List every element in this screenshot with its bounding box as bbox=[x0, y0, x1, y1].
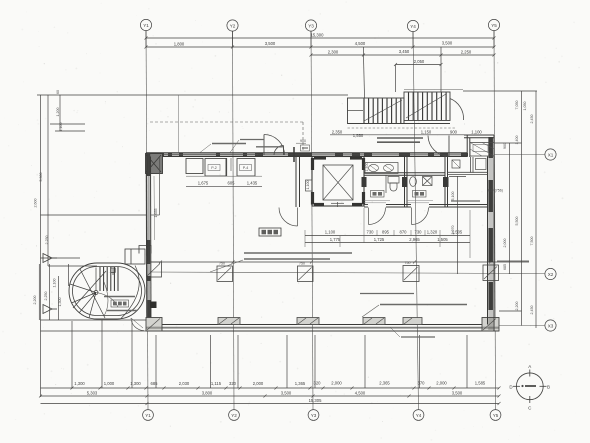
svg-text:60: 60 bbox=[56, 90, 60, 94]
bottom pilaster 4 bbox=[403, 318, 422, 325]
top wall hatch band bbox=[146, 154, 467, 156]
right wall hatch band bbox=[488, 137, 493, 330]
grid bubble X2 bbox=[545, 268, 556, 279]
svg-text:B1F(756): B1F(756) bbox=[488, 189, 503, 193]
lavatory top wall (under main wall) bbox=[364, 172, 445, 174]
grid bubble Y5 top bbox=[488, 19, 499, 30]
interior X2 bay dimension line bbox=[151, 261, 529, 263]
svg-text:750: 750 bbox=[405, 261, 411, 265]
spiral stair dim verticals bbox=[38, 264, 40, 320]
svg-text:4,500: 4,500 bbox=[355, 391, 366, 396]
window callout note bbox=[240, 139, 264, 141]
svg-text:4,500: 4,500 bbox=[355, 41, 366, 46]
svg-text:1,300: 1,300 bbox=[74, 381, 85, 386]
right tick y261 bbox=[497, 260, 529, 262]
entrance double door arc left bbox=[264, 135, 285, 156]
small AD box near Y3 bbox=[301, 145, 310, 151]
spiral inner arc detail bbox=[96, 293, 118, 308]
top wall thick segments bbox=[0, 0, 1, 1]
bottom wall outer bbox=[146, 330, 499, 332]
svg-text:2,450: 2,450 bbox=[530, 306, 534, 315]
svg-text:1,400: 1,400 bbox=[515, 136, 519, 145]
svg-text:3,800: 3,800 bbox=[202, 391, 213, 396]
spiral stair inner wall bbox=[73, 267, 142, 316]
window unit box 2 with label P-2 bbox=[205, 159, 226, 177]
bottom-left corner column bbox=[146, 318, 162, 332]
svg-text:2,965: 2,965 bbox=[409, 237, 420, 242]
row1 tick slashes bbox=[71, 387, 501, 390]
svg-text:370: 370 bbox=[418, 381, 426, 386]
elevator shaft wall dark chunks bbox=[313, 158, 364, 205]
svg-text:320: 320 bbox=[314, 381, 322, 386]
svg-text:2,250: 2,250 bbox=[44, 292, 48, 301]
grid line Y3 bbox=[311, 31, 313, 410]
bottom dimension row1 bbox=[41, 387, 500, 389]
svg-text:2,000: 2,000 bbox=[503, 239, 507, 248]
svg-text:685: 685 bbox=[503, 264, 507, 270]
svg-text:2,000: 2,000 bbox=[253, 381, 264, 386]
inubashiri leader bbox=[362, 305, 379, 317]
spiral stair outer wall bbox=[69, 263, 145, 319]
spiral hub bbox=[94, 291, 98, 295]
entrance jamb bbox=[293, 147, 295, 162]
left tick y215 bbox=[41, 214, 147, 216]
left wall inner bbox=[150, 157, 153, 332]
window dim line bbox=[186, 185, 262, 187]
porch entry door arc bbox=[428, 136, 449, 157]
svg-text:X3: X3 bbox=[548, 324, 554, 329]
stair door arc right bbox=[450, 99, 464, 121]
black column block at stair landing bbox=[150, 302, 157, 309]
dimension line tier4 2050 bbox=[396, 64, 442, 66]
svg-text:2,350: 2,350 bbox=[332, 129, 343, 134]
exterior wall note leader bbox=[200, 144, 211, 153]
top wall outer line bbox=[146, 152, 467, 154]
sugata-zu note bbox=[451, 200, 480, 202]
svg-text:5,500: 5,500 bbox=[515, 217, 519, 226]
extension line from tier3 to stair bbox=[364, 55, 365, 98]
lavatory partition wall 1 bbox=[404, 157, 406, 208]
svg-text:2,250: 2,250 bbox=[45, 236, 49, 245]
stair right flight treads bbox=[409, 93, 447, 121]
SPIRAL bbox=[69, 246, 151, 331]
svg-text:1,505: 1,505 bbox=[437, 237, 448, 242]
urinal bbox=[410, 177, 417, 187]
landing step notch bbox=[139, 246, 151, 254]
elevator door bbox=[331, 202, 344, 207]
extension lines below spiral stair bbox=[71, 321, 73, 388]
second floor note bar bbox=[360, 293, 414, 295]
window unit box 1 bbox=[186, 159, 203, 174]
svg-text:1,400: 1,400 bbox=[365, 163, 369, 172]
svg-text:2,030: 2,030 bbox=[179, 381, 190, 386]
left tick y320 bbox=[41, 319, 147, 321]
core dimension line row1 bbox=[305, 235, 470, 237]
inubashiri note bbox=[380, 304, 467, 306]
spiral cross diagonals bbox=[73, 268, 106, 319]
toilet bowl bbox=[388, 177, 399, 192]
svg-text:895: 895 bbox=[382, 230, 390, 235]
svg-text:3,500: 3,500 bbox=[281, 391, 292, 396]
entrance mat grating bbox=[470, 143, 494, 157]
svg-text:1,050: 1,050 bbox=[523, 102, 527, 111]
svg-text:1,300: 1,300 bbox=[58, 298, 62, 307]
interior column X2-Y2 bbox=[217, 262, 233, 282]
door jamb blocks bbox=[362, 177, 449, 187]
COMPASS bbox=[509, 364, 550, 411]
stair enclosure outline bbox=[348, 92, 451, 124]
svg-text:2,000: 2,000 bbox=[436, 381, 447, 386]
svg-text:Y4: Y4 bbox=[410, 24, 416, 29]
grid bubble Y1 bottom bbox=[143, 410, 154, 421]
elevator cab with cross bbox=[323, 165, 353, 200]
svg-text:15,305: 15,305 bbox=[309, 398, 322, 403]
left wall thick segments bbox=[147, 154, 151, 331]
svg-text:1,585: 1,585 bbox=[475, 381, 486, 386]
floor tile note left bbox=[364, 201, 390, 203]
bottom wall hatch band bbox=[146, 327, 499, 329]
svg-text:1,675: 1,675 bbox=[198, 180, 209, 185]
svg-text:1,800: 1,800 bbox=[174, 41, 185, 46]
bottom-right corner pilaster bbox=[482, 318, 499, 332]
right dimension line B bbox=[521, 91, 523, 326]
bottom wall mid glazing line bbox=[162, 327, 494, 329]
svg-text:1,320: 1,320 bbox=[427, 230, 438, 235]
leader vertical x178 bbox=[178, 95, 180, 153]
overall top extension line bbox=[37, 94, 348, 96]
window mullions between boxes bbox=[226, 158, 228, 176]
svg-text:2,000: 2,000 bbox=[331, 381, 342, 386]
svg-text:2,200: 2,200 bbox=[33, 296, 37, 305]
stair mid rail bbox=[348, 110, 364, 112]
corner column top-left bbox=[146, 154, 163, 174]
top stair landing note texts bbox=[256, 146, 282, 148]
grid bubble Y3 top bbox=[305, 20, 316, 31]
right top tick bbox=[463, 90, 537, 92]
right wall thick segments bbox=[488, 137, 493, 310]
svg-text:1,775: 1,775 bbox=[330, 237, 341, 242]
bottom pilaster 1 bbox=[218, 318, 240, 325]
grid line X2 bbox=[150, 272, 545, 274]
stair left flight treads bbox=[364, 99, 401, 124]
svg-text:3,500: 3,500 bbox=[265, 41, 276, 46]
svg-text:5,100: 5,100 bbox=[451, 192, 455, 201]
LEFTDIM bbox=[33, 90, 348, 397]
svg-text:2,600: 2,600 bbox=[34, 199, 38, 208]
svg-text:B: B bbox=[547, 384, 550, 389]
svg-text:2,200: 2,200 bbox=[515, 302, 519, 311]
grid bubble Y3 bottom bbox=[308, 410, 319, 421]
top wall glazing line bbox=[164, 154, 258, 156]
svg-text:X1: X1 bbox=[548, 153, 554, 158]
svg-text:2,050: 2,050 bbox=[414, 59, 425, 64]
BOTTOMDIM bbox=[39, 320, 501, 405]
label box 女子 bbox=[371, 191, 385, 198]
top wall inner line bbox=[146, 156, 467, 158]
grid bubble X1 bbox=[545, 149, 556, 160]
entrance hall partition wall bbox=[295, 157, 297, 208]
svg-text:2,450: 2,450 bbox=[530, 115, 534, 124]
section mark upper bbox=[43, 254, 57, 263]
window sill line bbox=[186, 175, 262, 177]
column at left wall X2 bbox=[147, 262, 162, 277]
svg-text:3,450: 3,450 bbox=[399, 49, 410, 54]
grid line Y5 bbox=[494, 31, 496, 410]
TOPSTAIR bbox=[330, 90, 494, 143]
left tick y331 bbox=[41, 330, 147, 332]
lavatory partition wall 2 bbox=[444, 157, 446, 208]
bottom dimension row2 bbox=[41, 395, 500, 397]
grid line X1 stub bbox=[494, 154, 545, 156]
slop sink with cross bbox=[423, 177, 433, 186]
tick slashes tier1/3/4 bbox=[145, 37, 496, 67]
svg-text:730: 730 bbox=[367, 230, 375, 235]
svg-text:Y3: Y3 bbox=[311, 413, 317, 418]
svg-text:900: 900 bbox=[503, 143, 507, 149]
svg-text:Y5: Y5 bbox=[493, 413, 499, 418]
bottom pilaster 3 bbox=[363, 318, 385, 325]
hall door arc to office bbox=[279, 208, 298, 227]
CORE bbox=[151, 157, 529, 275]
left dimension line C bbox=[59, 95, 61, 131]
svg-text:X2: X2 bbox=[548, 272, 554, 277]
interior corner partition bbox=[159, 157, 161, 215]
office finish note bbox=[244, 253, 352, 259]
spiral handrail arc bbox=[121, 266, 139, 319]
bottom wall inner bbox=[146, 324, 499, 326]
stair down arrow bbox=[111, 268, 115, 275]
svg-text:Y4: Y4 bbox=[416, 413, 422, 418]
right wall inner bbox=[487, 157, 489, 325]
window unit box 3 with label P-4 bbox=[237, 159, 255, 177]
dimension line tier3 bbox=[311, 54, 494, 56]
interior column X2-Y4 bbox=[403, 261, 419, 282]
svg-text:685: 685 bbox=[151, 381, 159, 386]
svg-text:7,500: 7,500 bbox=[530, 237, 534, 246]
svg-text:1,100: 1,100 bbox=[59, 123, 63, 132]
left wall furring line bbox=[153, 176, 156, 240]
svg-text:1,100: 1,100 bbox=[306, 181, 310, 190]
washbasin counter bbox=[365, 163, 398, 174]
extension lines below building bbox=[155, 335, 157, 388]
right tick y143 bbox=[494, 142, 522, 144]
svg-text:1,300: 1,300 bbox=[130, 381, 141, 386]
label box 男子 bbox=[413, 191, 427, 198]
stair parapet line bbox=[404, 89, 463, 91]
bottom pilaster 2 bbox=[297, 318, 319, 325]
svg-text:2,365: 2,365 bbox=[379, 381, 390, 386]
floor tile note right bbox=[407, 201, 433, 203]
grid bubble Y2 bottom bbox=[229, 410, 240, 421]
left wall outer bbox=[145, 153, 148, 331]
svg-text:1,100: 1,100 bbox=[53, 279, 57, 288]
grid bubble X3 bbox=[545, 320, 556, 331]
small duct box bbox=[452, 160, 460, 168]
core dimension line row2 bbox=[305, 242, 470, 244]
boxed note 7dan bbox=[111, 300, 129, 307]
svg-text:1,100: 1,100 bbox=[325, 230, 336, 235]
svg-text:5,303: 5,303 bbox=[87, 391, 98, 396]
entrance door arc right bbox=[274, 146, 284, 156]
office note leader bbox=[210, 260, 243, 272]
svg-text:1,550: 1,550 bbox=[353, 133, 364, 138]
right dimension line A bbox=[509, 143, 511, 274]
stair note text lines bbox=[377, 138, 423, 142]
spiral landing door arc bbox=[131, 318, 144, 331]
svg-text:Y3: Y3 bbox=[308, 24, 314, 29]
grid bubble Y4 bottom bbox=[413, 410, 424, 421]
left tick y124 bbox=[50, 123, 85, 125]
toilet door arc right bbox=[412, 208, 429, 225]
leader curve to office bbox=[104, 282, 108, 316]
svg-text:1,365: 1,365 bbox=[295, 381, 306, 386]
grid bubble Y5 bottom bbox=[490, 410, 501, 421]
svg-text:Y1: Y1 bbox=[143, 23, 149, 28]
svg-text:Y1: Y1 bbox=[145, 413, 151, 418]
stair flight diagonal right bbox=[406, 94, 446, 118]
svg-text:2,300: 2,300 bbox=[328, 49, 339, 54]
svg-text:605: 605 bbox=[228, 180, 236, 185]
grid bubble Y1 top bbox=[140, 19, 151, 30]
svg-text:2,070: 2,070 bbox=[451, 226, 455, 235]
section mark lower bbox=[43, 305, 57, 314]
compass inner label bbox=[521, 385, 536, 387]
interior vertical dim line bbox=[457, 176, 459, 274]
grid bubble Y4 top bbox=[407, 20, 418, 31]
left dimension line B bbox=[47, 95, 49, 266]
bottom dimension row3 bbox=[41, 403, 500, 405]
porch top wall bbox=[464, 134, 494, 136]
svg-text:1,200: 1,200 bbox=[56, 108, 60, 117]
spiral radial treads bbox=[70, 284, 96, 318]
tick slashes tier2 bbox=[145, 46, 496, 49]
svg-text:320: 320 bbox=[229, 381, 237, 386]
overall dimension line 15300 bbox=[146, 37, 494, 39]
left tick y266 bbox=[48, 265, 97, 267]
svg-text:Y2: Y2 bbox=[231, 413, 237, 418]
utility fixture box bbox=[476, 159, 487, 170]
TOPDIM bbox=[145, 31, 496, 99]
column at right wall X2 bbox=[483, 265, 499, 281]
svg-text:A: A bbox=[528, 364, 531, 369]
grid line Y2 bbox=[233, 31, 235, 410]
porch side wall bbox=[466, 135, 468, 157]
svg-text:1,725: 1,725 bbox=[374, 237, 385, 242]
spiral note line 1 bbox=[104, 297, 137, 311]
svg-text:P-2: P-2 bbox=[211, 166, 217, 170]
toilet door arc left bbox=[369, 208, 386, 225]
svg-text:1,435: 1,435 bbox=[247, 180, 258, 185]
interior column X2-Y3 bbox=[298, 262, 314, 282]
svg-text:2,250: 2,250 bbox=[461, 49, 472, 54]
gravel note leader bbox=[390, 327, 400, 337]
right tick y311 bbox=[499, 310, 522, 312]
elevator pit box left bbox=[306, 180, 313, 191]
row2 tick slashes bbox=[39, 395, 501, 398]
svg-text:900: 900 bbox=[450, 129, 458, 134]
right dimension line C bbox=[535, 91, 537, 328]
svg-text:5,300: 5,300 bbox=[39, 173, 43, 182]
svg-text:1,115: 1,115 bbox=[211, 381, 222, 386]
stair dim row bbox=[330, 134, 494, 136]
svg-text:7,050: 7,050 bbox=[515, 101, 519, 110]
landing box to building bbox=[125, 249, 145, 264]
svg-text:Y5: Y5 bbox=[491, 23, 497, 28]
canopy dashed line bbox=[150, 121, 303, 123]
svg-text:P-4: P-4 bbox=[243, 166, 249, 170]
svg-text:870: 870 bbox=[400, 230, 408, 235]
grid line Y4 bbox=[413, 32, 419, 410]
core dim extension ticks bbox=[305, 208, 470, 258]
lavatory bottom wall bbox=[364, 205, 488, 208]
svg-text:1,100: 1,100 bbox=[471, 129, 482, 134]
NOTES bbox=[200, 140, 503, 338]
svg-text:Y2: Y2 bbox=[230, 24, 236, 29]
left tick y258 bbox=[41, 257, 81, 259]
stair lower dashed line bbox=[348, 127, 456, 129]
office room label box bbox=[259, 228, 281, 236]
BUILDING bbox=[146, 95, 500, 331]
utility room partition bbox=[448, 157, 488, 175]
gravel note below wall bbox=[401, 336, 435, 338]
left dimension line A bbox=[40, 95, 42, 397]
compass circle bbox=[516, 373, 543, 400]
RIGHTDIM bbox=[463, 91, 537, 328]
svg-text:15,300: 15,300 bbox=[311, 33, 324, 38]
svg-text:3,500: 3,500 bbox=[452, 391, 463, 396]
grid line Y1 bbox=[146, 31, 148, 410]
dimension line tier2 bbox=[146, 46, 494, 48]
svg-text:1,655: 1,655 bbox=[154, 209, 158, 218]
exterior wall finish note bbox=[212, 143, 246, 145]
svg-text:3,500: 3,500 bbox=[442, 41, 453, 46]
spiral straight treads bbox=[100, 267, 118, 291]
left wall hatch band bbox=[148, 153, 151, 331]
elevator shaft outer wall bbox=[312, 157, 364, 207]
svg-text:730: 730 bbox=[415, 230, 423, 235]
svg-text:1,000: 1,000 bbox=[104, 381, 115, 386]
grid bubble Y2 top bbox=[227, 20, 238, 31]
compass cross ticks bbox=[513, 370, 547, 404]
svg-text:1,150: 1,150 bbox=[421, 129, 432, 134]
left tick y131 bbox=[55, 130, 85, 132]
right wall outer bbox=[493, 135, 495, 331]
grid line X3 stub bbox=[499, 325, 545, 327]
stall partition bbox=[385, 175, 387, 193]
stair flight diagonal left bbox=[364, 100, 402, 121]
